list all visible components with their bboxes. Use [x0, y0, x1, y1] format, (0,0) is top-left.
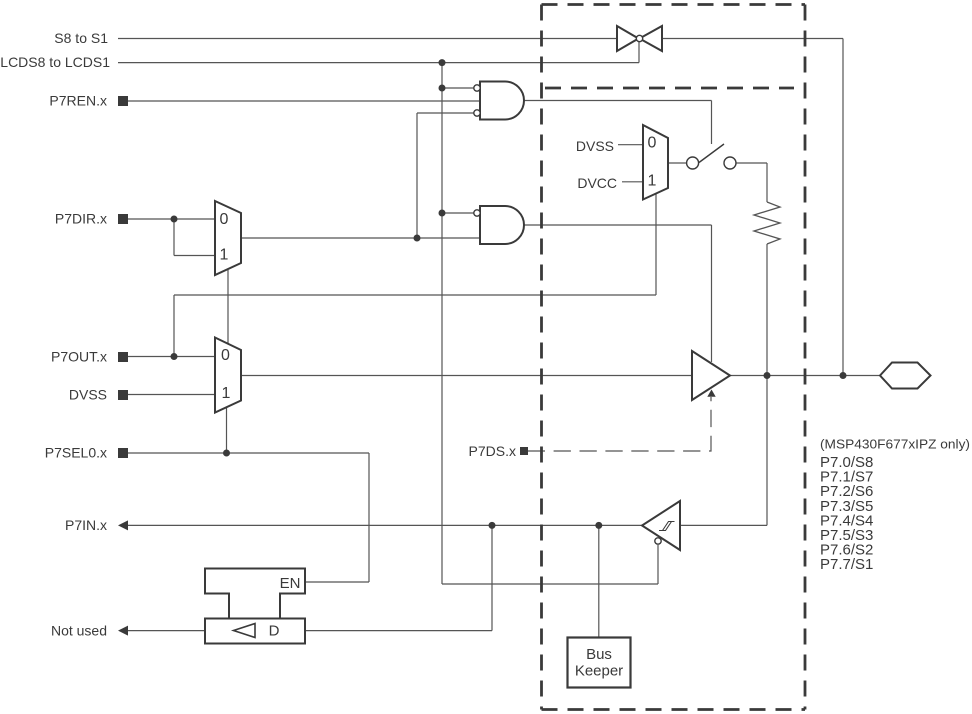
- svg-text:P7.7/S1: P7.7/S1: [820, 556, 873, 573]
- svg-text:Not used: Not used: [51, 623, 107, 639]
- svg-text:0: 0: [220, 211, 229, 228]
- svg-text:P7OUT.x: P7OUT.x: [51, 349, 107, 365]
- svg-text:D: D: [269, 622, 280, 639]
- svg-text:P7SEL0.x: P7SEL0.x: [45, 445, 107, 461]
- svg-text:1: 1: [220, 247, 229, 264]
- svg-text:S8 to S1: S8 to S1: [54, 30, 108, 46]
- svg-text:P7DIR.x: P7DIR.x: [55, 211, 107, 227]
- svg-text:Bus: Bus: [586, 646, 612, 663]
- svg-text:LCDS8 to LCDS1: LCDS8 to LCDS1: [0, 54, 110, 70]
- svg-text:Keeper: Keeper: [575, 663, 623, 680]
- svg-text:DVSS: DVSS: [576, 138, 614, 154]
- svg-text:P7DS.x: P7DS.x: [469, 443, 516, 459]
- svg-text:DVCC: DVCC: [577, 175, 617, 191]
- svg-text:EN: EN: [280, 575, 301, 592]
- svg-text:0: 0: [648, 135, 657, 152]
- svg-text:1: 1: [222, 385, 231, 402]
- svg-text:0: 0: [221, 347, 230, 364]
- svg-text:DVSS: DVSS: [69, 387, 107, 403]
- svg-text:P7IN.x: P7IN.x: [65, 517, 107, 533]
- svg-text:(MSP430F677xIPZ only): (MSP430F677xIPZ only): [820, 437, 970, 452]
- svg-text:P7REN.x: P7REN.x: [49, 93, 107, 109]
- svg-text:1: 1: [648, 173, 657, 190]
